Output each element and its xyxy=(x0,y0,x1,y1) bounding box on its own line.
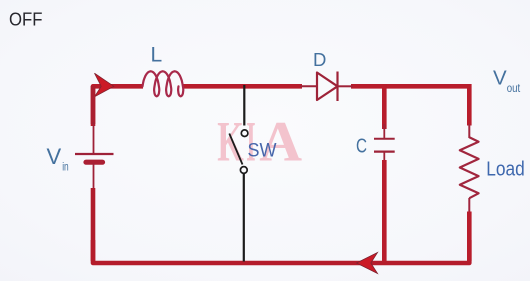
battery Vin top lead xyxy=(93,122,95,153)
wire: capacitor to bottom rail xyxy=(382,160,387,262)
battery Vin bottom lead xyxy=(93,163,95,190)
svg-text:D: D xyxy=(313,49,326,70)
diode D cathode bar xyxy=(336,72,338,102)
diode D anode lead xyxy=(300,85,317,87)
wire: top rail left segment (corner to inductor) xyxy=(93,86,143,126)
switch SW top terminal xyxy=(241,130,248,137)
resistor Load bottom lead xyxy=(468,198,470,213)
switch SW bottom terminal xyxy=(240,167,247,174)
switch SW blade (open) xyxy=(229,134,242,165)
diode D triangle xyxy=(317,73,338,101)
wire: top rail inductor to diode xyxy=(184,84,303,89)
wire: top rail diode to right corner, down xyxy=(351,86,469,125)
diode D cathode lead xyxy=(338,85,354,87)
wire: left vertical lower (battery to bottom rail) xyxy=(91,188,96,261)
wire: right vertical lower (load to bottom rail) xyxy=(467,212,472,262)
wire: bottom rail xyxy=(93,240,469,263)
switch SW bottom lead xyxy=(243,174,245,262)
resistor Load top lead xyxy=(468,124,470,138)
switch SW top lead xyxy=(243,85,245,126)
capacitor C top plate xyxy=(374,138,395,140)
capacitor C bottom plate xyxy=(374,151,395,153)
current arrow A2 (bottom rail, pointing left) xyxy=(357,253,378,274)
battery Vin negative plate xyxy=(86,160,103,165)
current arrow A1 (into inductor) xyxy=(95,73,114,97)
wire: capacitor branch vertical (top rail junction down) xyxy=(382,84,387,129)
capacitor C bottom lead xyxy=(383,152,385,162)
resistor Load zigzag xyxy=(460,137,479,198)
svg-text:K: K xyxy=(217,111,244,174)
battery Vin positive plate xyxy=(75,153,114,155)
watermark KIA xyxy=(217,110,302,174)
svg-text:Load: Load xyxy=(486,158,525,181)
svg-text:OFF: OFF xyxy=(9,9,43,30)
svg-text:L: L xyxy=(151,44,163,67)
svg-text:SW: SW xyxy=(248,140,278,162)
wire: left vertical (corner to battery) xyxy=(91,86,96,124)
svg-text:C: C xyxy=(356,136,367,158)
inductor L xyxy=(143,71,184,96)
capacitor C top lead xyxy=(383,124,385,138)
